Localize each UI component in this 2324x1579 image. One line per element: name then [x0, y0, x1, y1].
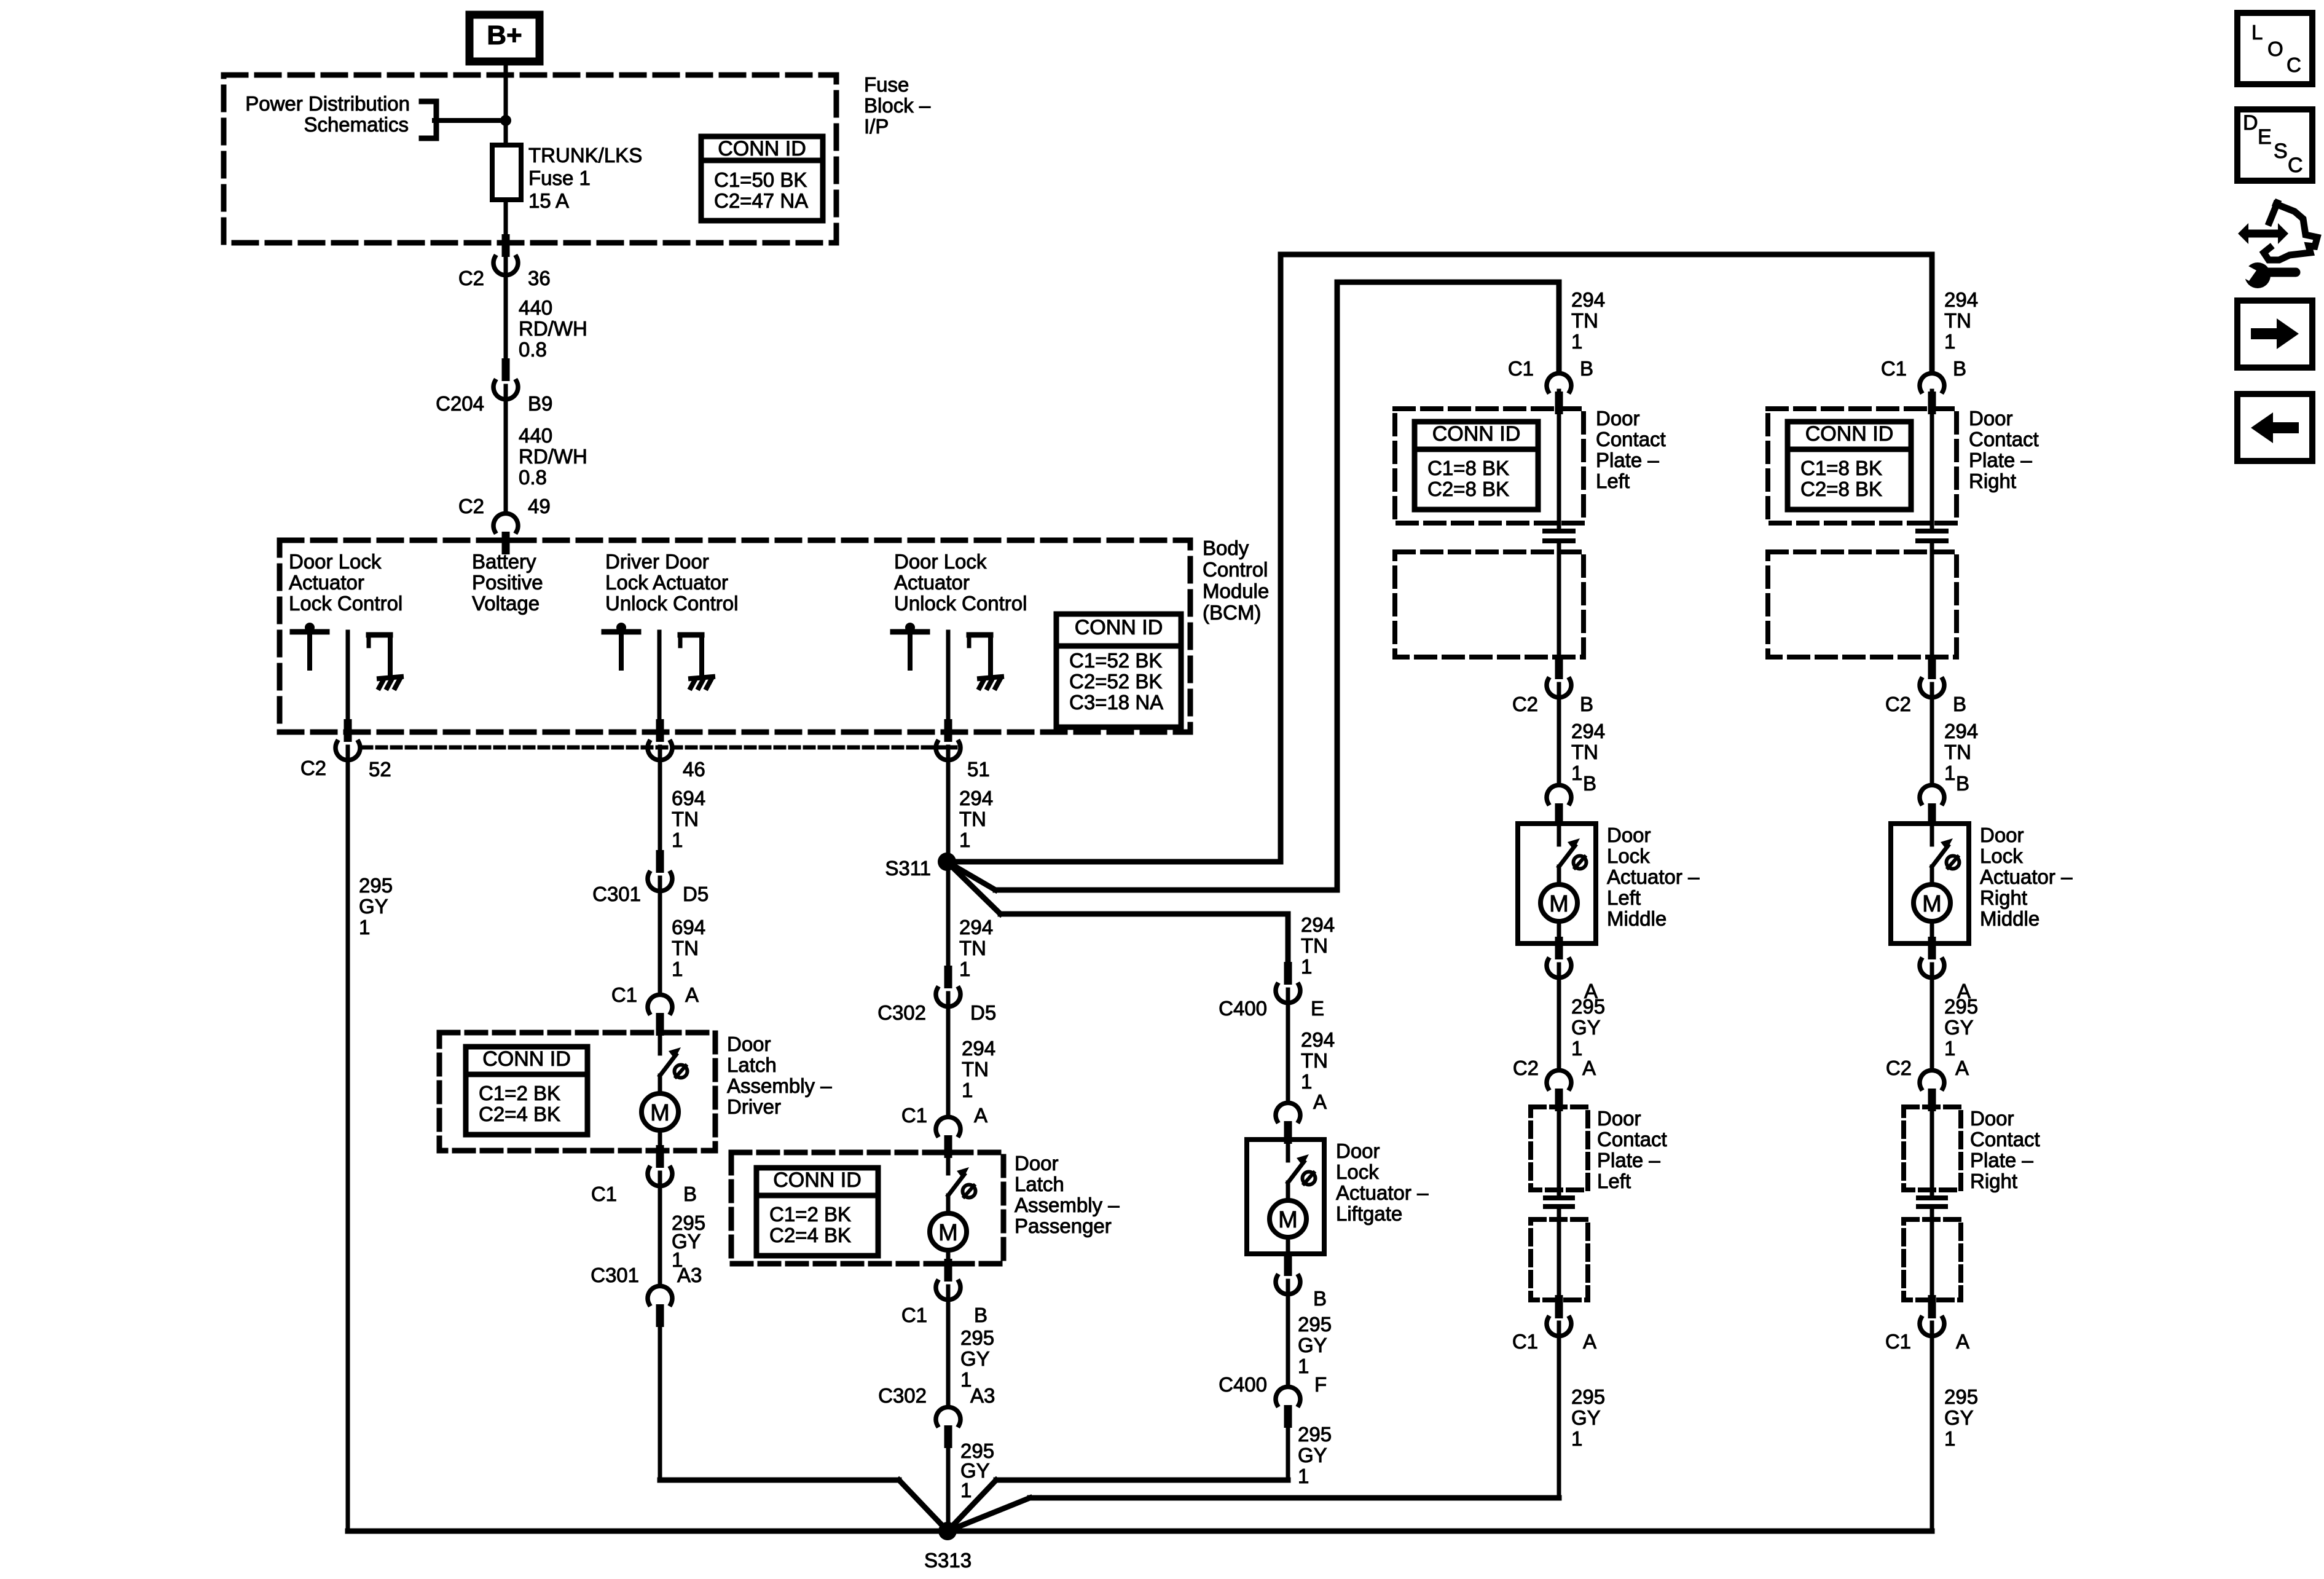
svg-text:GY: GY — [1298, 1334, 1327, 1357]
svg-text:D: D — [2243, 111, 2258, 135]
svg-text:295: 295 — [1298, 1423, 1332, 1446]
svg-text:0.8: 0.8 — [519, 338, 547, 361]
svg-text:51: 51 — [967, 758, 990, 781]
svg-text:Battery: Battery — [472, 550, 536, 573]
svg-text:S311: S311 — [885, 857, 931, 880]
svg-text:1: 1 — [1571, 1037, 1582, 1060]
svg-text:TN: TN — [1944, 309, 1971, 332]
svg-text:A: A — [974, 1104, 987, 1127]
svg-text:1: 1 — [1944, 762, 1955, 784]
svg-text:TN: TN — [1301, 934, 1328, 957]
svg-text:1: 1 — [672, 958, 683, 980]
svg-text:Middle: Middle — [1980, 907, 2039, 930]
svg-text:Actuator –: Actuator – — [1336, 1181, 1429, 1204]
svg-text:C: C — [2287, 53, 2301, 76]
svg-text:C1: C1 — [1508, 357, 1534, 380]
svg-text:Lock: Lock — [1336, 1160, 1379, 1183]
svg-text:S: S — [2274, 140, 2288, 163]
svg-text:C400: C400 — [1219, 997, 1267, 1020]
svg-text:694: 694 — [672, 787, 705, 809]
svg-text:C: C — [2288, 154, 2303, 177]
svg-text:15 A: 15 A — [528, 189, 569, 212]
svg-text:C2: C2 — [1885, 693, 1911, 715]
svg-text:Door: Door — [1336, 1140, 1380, 1162]
svg-text:B: B — [1580, 693, 1593, 715]
svg-text:Latch: Latch — [727, 1053, 777, 1076]
svg-text:A: A — [1313, 1090, 1327, 1113]
svg-text:CONN ID: CONN ID — [1075, 616, 1163, 639]
svg-text:TN: TN — [1571, 741, 1598, 763]
svg-text:M: M — [1922, 891, 1942, 917]
svg-text:TRUNK/LKS: TRUNK/LKS — [528, 144, 642, 167]
svg-text:L: L — [2251, 21, 2263, 44]
svg-text:1: 1 — [1944, 1427, 1955, 1450]
svg-text:(BCM): (BCM) — [1203, 601, 1261, 624]
svg-text:E: E — [2258, 125, 2272, 149]
svg-text:C2=52 BK: C2=52 BK — [1069, 670, 1162, 693]
svg-text:C1: C1 — [1885, 1330, 1911, 1353]
svg-text:Latch: Latch — [1015, 1173, 1064, 1195]
svg-text:Door: Door — [1015, 1152, 1059, 1175]
svg-text:A: A — [1955, 1057, 1969, 1079]
svg-text:A: A — [1582, 1057, 1596, 1079]
svg-text:Contact: Contact — [1970, 1128, 2040, 1151]
svg-text:1: 1 — [359, 916, 370, 939]
svg-text:Actuator –: Actuator – — [1980, 865, 2073, 888]
svg-text:C1: C1 — [1512, 1330, 1538, 1353]
svg-text:B: B — [1580, 357, 1593, 380]
svg-text:1: 1 — [962, 1079, 973, 1101]
svg-text:S313: S313 — [924, 1549, 972, 1572]
svg-text:52: 52 — [369, 758, 391, 781]
svg-text:294: 294 — [1571, 288, 1605, 311]
svg-text:Passenger: Passenger — [1015, 1215, 1112, 1237]
svg-text:Plate –: Plate – — [1969, 449, 2032, 471]
svg-text:C1: C1 — [901, 1104, 927, 1127]
svg-text:Plate –: Plate – — [1597, 1149, 1660, 1171]
svg-text:1: 1 — [1298, 1465, 1309, 1487]
svg-text:C302: C302 — [877, 1001, 926, 1024]
svg-text:A3: A3 — [677, 1264, 702, 1286]
svg-text:Lock Actuator: Lock Actuator — [605, 571, 728, 594]
svg-text:Door: Door — [1607, 824, 1651, 846]
svg-text:C1=2 BK: C1=2 BK — [769, 1203, 851, 1226]
svg-text:36: 36 — [528, 267, 551, 289]
svg-text:694: 694 — [672, 916, 705, 939]
svg-text:Unlock Control: Unlock Control — [605, 592, 738, 615]
svg-text:Right: Right — [1969, 470, 2016, 492]
svg-text:Fuse: Fuse — [864, 73, 909, 96]
svg-text:Plate –: Plate – — [1970, 1149, 2033, 1171]
svg-text:Driver: Driver — [727, 1095, 781, 1118]
svg-text:C2: C2 — [1886, 1057, 1912, 1079]
svg-text:49: 49 — [528, 495, 551, 518]
svg-text:Lock: Lock — [1980, 845, 2023, 867]
svg-text:O: O — [2267, 37, 2283, 60]
svg-text:440: 440 — [519, 296, 552, 319]
svg-text:Actuator –: Actuator – — [1607, 865, 1700, 888]
svg-text:GY: GY — [1571, 1016, 1601, 1039]
svg-text:Positive: Positive — [472, 571, 543, 594]
svg-text:Plate –: Plate – — [1596, 449, 1659, 471]
svg-text:Right: Right — [1970, 1170, 2017, 1192]
svg-text:B+: B+ — [487, 20, 522, 50]
svg-text:Contact: Contact — [1969, 428, 2039, 451]
svg-text:Middle: Middle — [1607, 907, 1666, 930]
svg-text:D5: D5 — [970, 1001, 996, 1024]
svg-text:46: 46 — [683, 758, 705, 781]
svg-text:M: M — [1278, 1207, 1298, 1233]
svg-text:295: 295 — [1944, 1385, 1978, 1408]
svg-text:295: 295 — [1571, 1385, 1605, 1408]
svg-text:C302: C302 — [878, 1384, 927, 1407]
svg-text:TN: TN — [1571, 309, 1598, 332]
svg-text:Assembly –: Assembly – — [727, 1074, 832, 1097]
svg-text:Actuator: Actuator — [289, 571, 364, 594]
svg-text:TN: TN — [672, 808, 699, 830]
svg-text:GY: GY — [960, 1347, 990, 1370]
svg-text:TN: TN — [959, 937, 986, 959]
svg-text:CONN ID: CONN ID — [1432, 422, 1521, 446]
svg-text:E: E — [1311, 997, 1324, 1020]
svg-text:1: 1 — [1301, 1070, 1312, 1093]
svg-text:C1: C1 — [591, 1183, 617, 1205]
svg-text:Right: Right — [1980, 886, 2027, 909]
svg-text:M: M — [650, 1100, 670, 1126]
svg-text:Block –: Block – — [864, 94, 931, 117]
svg-text:Door: Door — [1970, 1107, 2014, 1130]
svg-text:B: B — [1956, 772, 1969, 795]
svg-text:1: 1 — [1571, 1427, 1582, 1450]
svg-text:A: A — [1956, 1330, 1969, 1353]
svg-text:1: 1 — [959, 829, 970, 851]
svg-text:A3: A3 — [970, 1384, 995, 1407]
svg-text:295: 295 — [1944, 995, 1978, 1018]
svg-text:C3=18 NA: C3=18 NA — [1069, 691, 1163, 714]
svg-text:Door: Door — [1596, 407, 1640, 430]
svg-text:294: 294 — [1571, 720, 1605, 742]
svg-text:GY: GY — [359, 895, 388, 918]
svg-text:C2: C2 — [458, 495, 484, 518]
svg-text:Lock Control: Lock Control — [289, 592, 402, 615]
svg-text:C2=4 BK: C2=4 BK — [479, 1103, 560, 1125]
svg-text:C400: C400 — [1219, 1373, 1267, 1396]
svg-text:Module: Module — [1203, 580, 1269, 602]
svg-text:C1=52 BK: C1=52 BK — [1069, 649, 1162, 672]
svg-text:Left: Left — [1597, 1170, 1631, 1192]
svg-text:295: 295 — [960, 1326, 994, 1349]
svg-text:C1=8 BK: C1=8 BK — [1427, 457, 1509, 479]
svg-text:C301: C301 — [592, 883, 641, 905]
svg-text:294: 294 — [959, 787, 993, 809]
svg-text:B: B — [1313, 1287, 1327, 1310]
svg-text:1: 1 — [959, 958, 970, 980]
svg-text:294: 294 — [959, 916, 993, 939]
svg-text:Left: Left — [1596, 470, 1630, 492]
svg-text:440: 440 — [519, 424, 552, 447]
svg-text:Door: Door — [1980, 824, 2024, 846]
svg-text:Door: Door — [727, 1033, 771, 1055]
svg-text:GY: GY — [1944, 1016, 1974, 1039]
svg-text:Actuator: Actuator — [894, 571, 970, 594]
svg-text:Schematics: Schematics — [304, 113, 409, 136]
svg-text:C2: C2 — [300, 757, 326, 779]
svg-text:B: B — [1953, 357, 1966, 380]
svg-text:I/P: I/P — [864, 115, 889, 138]
svg-text:1: 1 — [1571, 330, 1582, 353]
svg-text:M: M — [1549, 891, 1569, 917]
svg-text:Door Lock: Door Lock — [289, 550, 382, 573]
svg-text:C1=2 BK: C1=2 BK — [479, 1082, 560, 1105]
svg-text:CONN ID: CONN ID — [773, 1168, 862, 1192]
svg-text:294: 294 — [1944, 720, 1978, 742]
svg-text:RD/WH: RD/WH — [519, 445, 587, 468]
svg-text:B: B — [683, 1183, 697, 1205]
svg-text:Unlock Control: Unlock Control — [894, 592, 1027, 615]
svg-text:1: 1 — [960, 1479, 972, 1502]
svg-text:0.8: 0.8 — [519, 466, 547, 489]
svg-text:Fuse 1: Fuse 1 — [528, 167, 591, 189]
svg-text:TN: TN — [962, 1058, 989, 1081]
svg-text:TN: TN — [1301, 1049, 1328, 1072]
svg-text:GY: GY — [1571, 1406, 1601, 1429]
svg-text:GY: GY — [1944, 1406, 1974, 1429]
svg-text:Contact: Contact — [1597, 1128, 1667, 1151]
svg-text:C2=47 NA: C2=47 NA — [714, 189, 808, 212]
svg-text:C1: C1 — [611, 983, 637, 1006]
svg-text:295: 295 — [359, 874, 393, 897]
svg-text:1: 1 — [672, 829, 683, 851]
svg-text:Left: Left — [1607, 886, 1641, 909]
svg-text:295: 295 — [1571, 995, 1605, 1018]
svg-text:CONN ID: CONN ID — [1805, 422, 1894, 446]
svg-text:Liftgate: Liftgate — [1336, 1202, 1402, 1225]
svg-text:CONN ID: CONN ID — [482, 1047, 571, 1071]
svg-text:Assembly –: Assembly – — [1015, 1194, 1120, 1216]
svg-text:TN: TN — [672, 937, 699, 959]
svg-text:Control: Control — [1203, 558, 1268, 581]
svg-text:C2=4 BK: C2=4 BK — [769, 1224, 851, 1246]
svg-text:C2: C2 — [1513, 1057, 1539, 1079]
svg-text:CONN ID: CONN ID — [718, 137, 806, 160]
svg-text:C1: C1 — [901, 1304, 927, 1326]
svg-text:Door Lock: Door Lock — [894, 550, 987, 573]
svg-text:1: 1 — [1301, 955, 1312, 978]
svg-text:A: A — [685, 983, 699, 1006]
svg-text:Body: Body — [1203, 537, 1249, 559]
svg-text:1: 1 — [1571, 762, 1582, 784]
svg-text:1: 1 — [1944, 1037, 1955, 1060]
svg-text:294: 294 — [962, 1037, 995, 1060]
svg-text:Door: Door — [1969, 407, 2013, 430]
svg-text:A: A — [1583, 1330, 1596, 1353]
svg-text:B: B — [974, 1304, 987, 1326]
svg-text:C1: C1 — [1881, 357, 1907, 380]
svg-text:RD/WH: RD/WH — [519, 317, 587, 340]
svg-text:C1=8 BK: C1=8 BK — [1800, 457, 1882, 479]
svg-text:294: 294 — [1301, 1028, 1335, 1051]
svg-text:C2=8 BK: C2=8 BK — [1800, 478, 1882, 500]
svg-text:Voltage: Voltage — [472, 592, 540, 615]
svg-text:B9: B9 — [528, 392, 552, 415]
svg-text:TN: TN — [1944, 741, 1971, 763]
svg-text:C301: C301 — [591, 1264, 639, 1286]
svg-text:B: B — [1953, 693, 1966, 715]
svg-text:294: 294 — [1301, 913, 1335, 936]
svg-text:D5: D5 — [683, 883, 709, 905]
svg-text:1: 1 — [1944, 330, 1955, 353]
svg-text:M: M — [938, 1220, 958, 1246]
svg-text:C2: C2 — [1512, 693, 1538, 715]
svg-text:Contact: Contact — [1596, 428, 1666, 451]
svg-text:GY: GY — [1298, 1444, 1327, 1467]
svg-text:295: 295 — [1298, 1313, 1332, 1336]
svg-text:C1=50 BK: C1=50 BK — [714, 168, 807, 191]
svg-text:294: 294 — [1944, 288, 1978, 311]
svg-text:Door: Door — [1597, 1107, 1641, 1130]
svg-text:Power Distribution: Power Distribution — [245, 92, 410, 115]
svg-text:C2=8 BK: C2=8 BK — [1427, 478, 1509, 500]
svg-text:Driver Door: Driver Door — [605, 550, 709, 573]
svg-text:C204: C204 — [436, 392, 484, 415]
svg-text:B: B — [1583, 772, 1596, 795]
svg-text:TN: TN — [959, 808, 986, 830]
svg-text:1: 1 — [1298, 1355, 1309, 1377]
svg-text:Lock: Lock — [1607, 845, 1650, 867]
svg-text:C2: C2 — [458, 267, 484, 289]
svg-text:F: F — [1314, 1373, 1327, 1396]
